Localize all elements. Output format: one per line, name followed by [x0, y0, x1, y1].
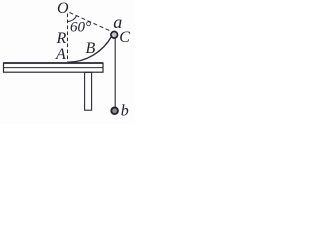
- hanging ball b: [111, 108, 118, 115]
- string from C to b: [114, 35, 116, 108]
- svg-text:C: C: [119, 29, 130, 46]
- svg-text:O: O: [57, 0, 69, 17]
- svg-text:R: R: [56, 30, 67, 47]
- arc track B from A to C: [68, 37, 112, 63]
- dashed radius OA (vertical): [67, 14, 69, 63]
- svg-text:B: B: [86, 40, 96, 57]
- svg-text:b: b: [121, 103, 129, 120]
- svg-text:60°: 60°: [70, 20, 91, 36]
- table top slab: [4, 63, 104, 72]
- table post: [85, 72, 92, 110]
- pulley ball at C: [111, 32, 118, 39]
- svg-text:A: A: [55, 46, 66, 63]
- angle arc at O: [68, 16, 77, 22]
- dashed radius OC (diagonal): [70, 13, 112, 32]
